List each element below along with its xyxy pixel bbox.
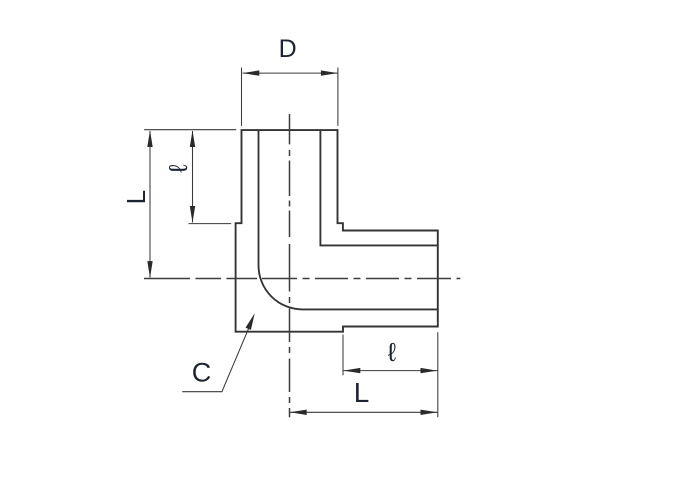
svg-text:L: L xyxy=(121,190,151,204)
socket step extension line (left) xyxy=(189,223,232,225)
top face extension line (left) xyxy=(144,129,236,131)
label C leader line xyxy=(182,328,249,392)
body outline xyxy=(236,130,438,332)
dimension l left line xyxy=(192,131,194,222)
vertical centerline xyxy=(289,114,291,417)
dimension D extension lines xyxy=(242,68,338,126)
bore right line xyxy=(320,130,437,245)
dimension L bottom line xyxy=(290,411,438,413)
svg-text:L: L xyxy=(354,377,370,408)
dimension l left arrows xyxy=(190,130,195,147)
dimension l bottom line xyxy=(344,370,438,372)
svg-text:C: C xyxy=(192,358,212,388)
svg-text:D: D xyxy=(279,35,297,63)
dimension D arrows xyxy=(243,70,260,75)
horizontal centerline xyxy=(144,278,460,280)
bottom right extension line xyxy=(437,332,439,417)
svg-text:ℓ: ℓ xyxy=(163,164,193,173)
dimension L bottom arrows xyxy=(290,410,307,415)
bore left line with fillet C xyxy=(259,130,438,309)
svg-text:ℓ: ℓ xyxy=(388,337,397,367)
dimension l bottom arrows xyxy=(344,368,361,373)
dimension L left line xyxy=(149,131,151,278)
dimension D line xyxy=(243,72,338,74)
bottom l extension line (left) xyxy=(342,335,344,376)
dimension L left arrows xyxy=(147,130,152,147)
label C leader arrow xyxy=(246,313,255,330)
